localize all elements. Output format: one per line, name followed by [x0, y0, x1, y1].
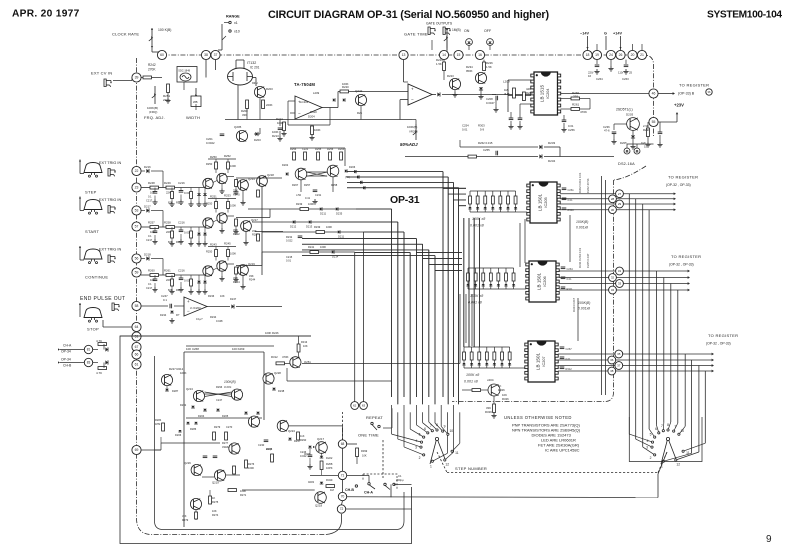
svg-text:16: 16: [478, 53, 482, 57]
svg-text:13: 13: [402, 53, 406, 57]
svg-text:D213: D213: [306, 225, 313, 229]
svg-text:100K: 100K: [342, 82, 349, 86]
svg-text:100K: 100K: [230, 204, 236, 208]
node 83: [84, 358, 92, 366]
svg-text:5-9: 5-9: [480, 128, 484, 132]
node 60: [157, 50, 166, 59]
svg-text:OP-34: OP-34: [61, 350, 71, 354]
svg-text:58: 58: [135, 304, 139, 308]
svg-text:22: 22: [135, 169, 139, 173]
svg-text:220K: 220K: [266, 103, 273, 107]
svg-text:R239: R239: [296, 202, 303, 206]
transistor Q208: [475, 72, 486, 83]
svg-text:82K: 82K: [168, 240, 173, 244]
svg-text:470K: 470K: [580, 110, 587, 114]
svg-text:100 K(B): 100 K(B): [158, 28, 171, 32]
wire it132 drop: [237, 84, 239, 120]
node 21: [637, 50, 646, 59]
svg-text:1M: 1M: [330, 488, 334, 492]
wire trig outputs to gating: [236, 177, 282, 179]
svg-text:21: 21: [640, 53, 644, 57]
diode D203b: [320, 482, 324, 484]
svg-text:18: 18: [586, 53, 590, 57]
svg-text:66: 66: [135, 353, 139, 357]
svg-text:6: 6: [655, 427, 657, 431]
svg-text:R243: R243: [210, 243, 217, 247]
svg-text:0.1: 0.1: [148, 195, 152, 199]
svg-text:1.5K: 1.5K: [436, 62, 442, 66]
svg-text:Q217: Q217: [251, 218, 258, 222]
svg-text:1.5K: 1.5K: [486, 65, 492, 69]
svg-text:R311: R311: [567, 287, 574, 291]
wire long 119: [279, 120, 281, 127]
cluster box: [184, 352, 264, 527]
svg-text:D204: D204: [308, 115, 315, 119]
svg-text:R311 C264 0.01: R311 C264 0.01: [578, 247, 582, 268]
jack gate out 2: [443, 27, 445, 35]
svg-text:LB 1501: LB 1501: [536, 273, 541, 291]
svg-text:D222: D222: [326, 456, 333, 460]
svg-text:11K: 11K: [300, 434, 305, 438]
wire ic204 left: [508, 95, 531, 97]
svg-text:100K x8: 100K x8: [466, 373, 479, 377]
diode D213: [437, 92, 440, 96]
svg-text:C255: C255: [483, 148, 490, 152]
node 63: [360, 402, 368, 410]
rect width block: [191, 96, 201, 107]
wire 62 63 up: [354, 252, 356, 402]
svg-text:D211: D211: [338, 235, 345, 239]
svg-text:EXT TRIG IN: EXT TRIG IN: [99, 198, 121, 202]
wire 72 right: [346, 508, 412, 510]
dash 63 to 68: [342, 430, 344, 440]
node 14: [439, 50, 448, 59]
wire gate pot: [446, 48, 448, 52]
svg-text:R223: R223: [447, 74, 454, 78]
svg-text:4.7K: 4.7K: [96, 339, 102, 343]
svg-text:EXT TRIG IN: EXT TRIG IN: [99, 161, 121, 165]
svg-text:UNLESS OTHERWISE NOTED: UNLESS OTHERWISE NOTED: [504, 415, 572, 420]
svg-text:10K: 10K: [212, 509, 217, 513]
footswitch START: [84, 200, 102, 210]
svg-text:R244: R244: [249, 278, 256, 282]
wire 70 long: [347, 496, 658, 499]
svg-text:23: 23: [135, 186, 139, 190]
label OP-31 module name: [387, 193, 422, 205]
svg-text:J3K: J3K: [182, 514, 187, 518]
svg-text:R310: R310: [568, 208, 575, 212]
svg-text:D234: D234: [548, 159, 556, 163]
svg-text:0.022: 0.022: [286, 239, 293, 243]
svg-text:Q217: Q217: [317, 437, 324, 441]
svg-text:5: 5: [419, 433, 421, 437]
svg-text:0.0047: 0.0047: [486, 101, 495, 105]
svg-text:IC204: IC204: [546, 88, 550, 98]
svg-text:3: 3: [415, 446, 417, 450]
svg-text:LB 1515: LB 1515: [540, 85, 545, 103]
svg-text:R279: R279: [182, 518, 189, 522]
svg-text:110/: 110/: [618, 71, 623, 75]
svg-text:STEP NUMBER: STEP NUMBER: [455, 466, 487, 471]
svg-text:0.001 x8: 0.001 x8: [470, 224, 484, 228]
svg-text:27: 27: [618, 192, 622, 196]
svg-text:R234: R234: [210, 315, 217, 319]
svg-text:R250: R250: [210, 155, 217, 159]
capacitor C264: [596, 60, 598, 64]
svg-text:+: +: [411, 87, 414, 92]
svg-text:R239: R239: [314, 225, 321, 229]
svg-text:C264: C264: [567, 267, 574, 271]
svg-text:C216: C216: [178, 181, 185, 185]
svg-text:10PK: 10PK: [326, 466, 333, 470]
svg-text:x1: x1: [234, 21, 238, 25]
svg-text:D287: D287: [172, 389, 179, 393]
transistor Q206t: [355, 94, 366, 105]
resistor R261: [561, 108, 572, 110]
jack gate out 1: [428, 27, 430, 35]
svg-text:IC205: IC205: [544, 197, 548, 207]
svg-text:14: 14: [442, 53, 446, 57]
svg-text:Q214: Q214: [248, 177, 255, 181]
svg-text:IC207: IC207: [542, 356, 546, 366]
node 36 op33: [706, 89, 712, 95]
svg-text:R241: R241: [308, 245, 315, 249]
svg-text:C267: C267: [566, 347, 573, 351]
svg-text:2SD5T1(L): 2SD5T1(L): [616, 108, 633, 112]
svg-text:CONTINUE: CONTINUE: [85, 275, 108, 280]
svg-text:x10: x10: [234, 30, 240, 34]
transistor Q202: [254, 86, 265, 97]
svg-text:D214: D214: [332, 255, 339, 259]
pot VR201 clock rate: [151, 28, 153, 48]
LED D210 off: [487, 39, 494, 46]
wire ic204 out to 46: [561, 93, 650, 95]
wire q206: [360, 106, 362, 120]
svg-text:APR. 20 1977: APR. 20 1977: [12, 9, 80, 20]
svg-text:R257: R257: [304, 183, 311, 187]
transistor Q207: [449, 78, 460, 89]
svg-text:11: 11: [686, 451, 690, 455]
wire range switch: [224, 22, 229, 24]
svg-text:950K: 950K: [466, 69, 473, 73]
svg-text:R326: R326: [502, 397, 509, 401]
svg-text:100K R246: 100K R246: [265, 331, 279, 335]
svg-text:C230: C230: [258, 443, 265, 447]
svg-text:0.1μ?: 0.1μ?: [196, 317, 203, 321]
IC205 LB1501 channel 1 with R301-R308 array: [469, 191, 471, 196]
svg-text:30: 30: [611, 208, 615, 212]
svg-text:D204: D204: [198, 414, 205, 418]
svg-text:D238: D238: [278, 389, 285, 393]
svg-text:100K: 100K: [248, 466, 254, 470]
svg-text:L209: L209: [503, 80, 510, 84]
wire 71 left: [310, 474, 338, 476]
svg-text:EXT TRIG IN: EXT TRIG IN: [99, 248, 121, 252]
LED D261 ch-a: [93, 349, 98, 351]
node 67: [132, 342, 141, 351]
resistor R258: [523, 92, 526, 101]
ground g1: [283, 131, 285, 133]
svg-text:R261: R261: [572, 103, 580, 107]
fet Q204: [488, 384, 500, 396]
wire: clock pot to rail: [151, 48, 153, 52]
resistor R208: [246, 100, 249, 109]
svg-text:Q213: Q213: [186, 387, 193, 391]
svg-text:D216: D216: [144, 165, 151, 169]
pot VR204 gate time: [446, 28, 448, 48]
svg-text:100K: 100K: [230, 252, 236, 256]
svg-text:R203: R203: [266, 87, 273, 91]
svg-text:1PM: 1PM: [155, 422, 160, 426]
svg-text:R248: R248: [148, 181, 155, 185]
svg-text:LC201: LC201: [300, 100, 309, 104]
svg-text:1: 1: [430, 464, 432, 468]
svg-text:GATE OUTPUTS: GATE OUTPUTS: [426, 22, 453, 26]
node 61: [132, 360, 141, 369]
resistor R251: [167, 84, 170, 93]
svg-text:R2: R2: [176, 240, 180, 244]
transistor Q205a: [236, 130, 247, 141]
wire flipflop to bundle: [344, 148, 346, 166]
svg-text:100K: 100K: [308, 202, 314, 206]
svg-text:L209: L209: [313, 91, 320, 95]
ground G pwr: [610, 60, 612, 66]
svg-text:R232: R232: [286, 235, 293, 239]
node 71: [338, 471, 346, 479]
diode D234: [405, 156, 538, 158]
svg-text:⅓ IC203: ⅓ IC203: [190, 306, 201, 310]
svg-text:G: G: [604, 32, 607, 36]
svg-text:TO REGISTER: TO REGISTER: [679, 83, 709, 88]
svg-text:3HB: 3HB: [504, 92, 510, 96]
svg-text:5: 5: [650, 433, 652, 437]
svg-text:0.01: 0.01: [286, 259, 292, 263]
svg-text:82K: 82K: [168, 288, 173, 292]
svg-text:83: 83: [87, 361, 91, 365]
LED DS2 indicator: [624, 148, 630, 154]
svg-text:9: 9: [444, 425, 446, 429]
svg-text:D217: D217: [144, 205, 151, 209]
svg-text:93N: 93N: [252, 81, 258, 85]
svg-text:3: 3: [646, 446, 648, 450]
svg-text:LB 1501: LB 1501: [537, 194, 542, 212]
svg-text:R261: R261: [164, 269, 171, 273]
svg-text:GATE TIME: GATE TIME: [404, 32, 428, 37]
wire 68-72 column: [342, 448, 344, 471]
diode D222: [320, 456, 324, 458]
node 23: [132, 183, 141, 192]
svg-text:0203: 0203: [308, 480, 314, 484]
svg-text:R250: R250: [206, 162, 213, 166]
wire sw2 common: [658, 452, 667, 474]
wire: middle vertical dash-dot rail: [452, 180, 614, 402]
wire channel feed-through a: [524, 219, 526, 263]
svg-text:0.001: 0.001: [224, 385, 232, 389]
node 58: [132, 301, 141, 310]
svg-text:+23V: +23V: [674, 103, 684, 108]
node 68: [338, 440, 346, 448]
diode D233: [460, 146, 538, 148]
svg-text:D206: D206: [349, 165, 356, 169]
svg-text:10K: 10K: [303, 344, 308, 348]
svg-text:R253: R253: [224, 194, 231, 198]
svg-text:R302 C261 0.01: R302 C261 0.01: [578, 172, 582, 193]
svg-text:Q219: Q219: [212, 481, 219, 485]
svg-text:OP-34: OP-34: [61, 358, 71, 362]
svg-text:55: 55: [652, 120, 656, 124]
svg-text:(OP-32 , OP-33): (OP-32 , OP-33): [706, 342, 731, 346]
svg-text:46: 46: [652, 92, 656, 96]
capacitor C254: [509, 117, 514, 119]
svg-text:(5K): (5K): [345, 175, 350, 179]
svg-text:R2: R2: [176, 288, 180, 292]
svg-text:R257: R257: [148, 221, 155, 225]
svg-text:Q205: Q205: [234, 125, 242, 129]
svg-text:10: 10: [680, 429, 684, 433]
svg-text:TO REGISTER: TO REGISTER: [708, 333, 738, 338]
svg-text:C263: C263: [622, 77, 629, 81]
trigger conditioner START (D217 R257 R258 Q212 Q213): [141, 210, 145, 212]
svg-text:(OP-32 , OP-33): (OP-32 , OP-33): [666, 183, 691, 187]
cap C203: [278, 127, 283, 129]
wire d233 join: [559, 147, 561, 157]
svg-text:33K: 33K: [242, 113, 247, 117]
svg-text:Q224: Q224: [288, 429, 295, 433]
svg-text:470K: 470K: [282, 355, 289, 359]
svg-text:100K: 100K: [230, 164, 236, 168]
svg-text:9: 9: [675, 425, 677, 429]
component IC201 IT132 dual FET: [228, 68, 253, 85]
svg-text:10K: 10K: [362, 454, 367, 458]
svg-text:C265 0.047: C265 0.047: [586, 253, 590, 268]
svg-text:60: 60: [160, 53, 164, 57]
node 51: [132, 332, 141, 341]
node 66: [132, 350, 141, 359]
wire to register op33: [658, 93, 673, 95]
svg-text:33K: 33K: [249, 274, 254, 278]
dashed step number linkage: [437, 452, 447, 473]
node 72: [337, 505, 345, 513]
node 39: [132, 73, 141, 82]
IC204 LB1515 clock driver: [534, 72, 558, 115]
svg-text:CH-B: CH-B: [345, 488, 354, 492]
zener D205: [631, 135, 635, 138]
svg-text:D205: D205: [222, 414, 229, 418]
svg-text:32: 32: [611, 276, 615, 280]
svg-text:R258: R258: [331, 183, 338, 187]
svg-text:33K: 33K: [252, 229, 257, 233]
resistor R214: [283, 122, 286, 131]
svg-text:0.001 x8: 0.001 x8: [464, 380, 478, 384]
bus wires to step rotary SW2: [628, 194, 630, 434]
svg-text:0.41: 0.41: [305, 196, 311, 200]
svg-text:R250: R250: [206, 250, 213, 254]
svg-text:4: 4: [416, 439, 418, 443]
svg-text:200pμ: 200pμ: [396, 478, 404, 482]
svg-text:ONE TIME: ONE TIME: [358, 433, 379, 438]
svg-text:CIRCUIT DIAGRAM OP-31 (Serial: CIRCUIT DIAGRAM OP-31 (Serial NO.560950 …: [268, 9, 549, 21]
svg-text:R275: R275: [212, 500, 219, 504]
svg-text:R410: R410: [310, 110, 317, 114]
pot VR width: [195, 88, 197, 104]
svg-text:(OP-32 , OP-33): (OP-32 , OP-33): [669, 263, 694, 267]
svg-text:SYSTEM100-104: SYSTEM100-104: [707, 10, 782, 21]
svg-text:C231: C231: [315, 193, 322, 197]
capacitor C237: [658, 131, 663, 133]
svg-text:72: 72: [340, 507, 344, 511]
svg-text:DS2-16A: DS2-16A: [618, 162, 635, 166]
svg-text:R313: R313: [301, 340, 308, 344]
diode gating network D211-D214: [248, 208, 356, 210]
svg-text:270K: 270K: [148, 68, 156, 72]
wire stop: [79, 303, 81, 317]
transistor Q218: [315, 492, 327, 504]
wire pwr stubs: [587, 36, 589, 50]
svg-text:37: 37: [214, 53, 218, 57]
svg-text:26: 26: [619, 53, 623, 57]
svg-text:C256: C256: [568, 128, 575, 132]
svg-text:12: 12: [676, 463, 680, 467]
capacitor C256: [562, 119, 567, 121]
svg-text:START: START: [85, 229, 99, 234]
wire 55 to +23V: [658, 121, 677, 123]
svg-text:9: 9: [766, 534, 772, 545]
wire trig STEP: [79, 160, 81, 174]
svg-text:82K: 82K: [168, 201, 173, 205]
node 13: [399, 50, 408, 59]
svg-text:R?: R?: [176, 313, 180, 317]
opamp feedback: [288, 100, 295, 102]
IC207 LB1501 channel 3 with R321-R328 array: [463, 347, 465, 352]
svg-text:R242: R242: [148, 63, 156, 67]
svg-text:STOP: STOP: [87, 327, 99, 332]
svg-text:33ΩK: 33ΩK: [222, 445, 229, 449]
mech linkage dash: [382, 440, 384, 478]
svg-text:CH-B: CH-B: [63, 364, 72, 368]
svg-text:20: 20: [631, 53, 635, 57]
svg-text:(FRQ): (FRQ): [149, 110, 157, 114]
svg-text:R262 0.015: R262 0.015: [478, 141, 493, 145]
svg-text:x204: x204: [487, 378, 494, 382]
svg-text:29: 29: [618, 202, 622, 206]
svg-text:R274: R274: [212, 513, 219, 517]
svg-text:D203: D203: [626, 113, 634, 117]
svg-text:0.001x8: 0.001x8: [576, 226, 588, 230]
svg-text:C247: C247: [216, 398, 223, 402]
step bus staircase wires: [391, 209, 393, 397]
svg-text:R296: R296: [216, 385, 223, 389]
wire comp out: [442, 94, 533, 96]
svg-text:270: 270: [573, 95, 578, 99]
svg-text:61: 61: [135, 363, 139, 367]
svg-text:100K: 100K: [314, 128, 321, 132]
svg-text:47-6: 47-6: [604, 129, 610, 133]
wire 69 row: [155, 449, 162, 451]
flip-flop Q221 Q222 (clock divider): [295, 168, 307, 180]
svg-text:LB 1501: LB 1501: [535, 353, 540, 371]
svg-text:50%ADJ: 50%ADJ: [400, 142, 418, 147]
svg-text:100K: 100K: [180, 371, 187, 375]
svg-text:R278: R278: [266, 447, 273, 451]
svg-text:100K(B): 100K(B): [576, 220, 588, 224]
svg-text:10: 10: [449, 429, 453, 433]
svg-text:CH-A: CH-A: [63, 344, 72, 348]
svg-text:4: 4: [647, 439, 649, 443]
svg-text:R260: R260: [148, 269, 155, 273]
footswitch STOP: [84, 308, 102, 318]
svg-text:ON: ON: [464, 29, 470, 33]
svg-text:25: 25: [629, 71, 633, 75]
